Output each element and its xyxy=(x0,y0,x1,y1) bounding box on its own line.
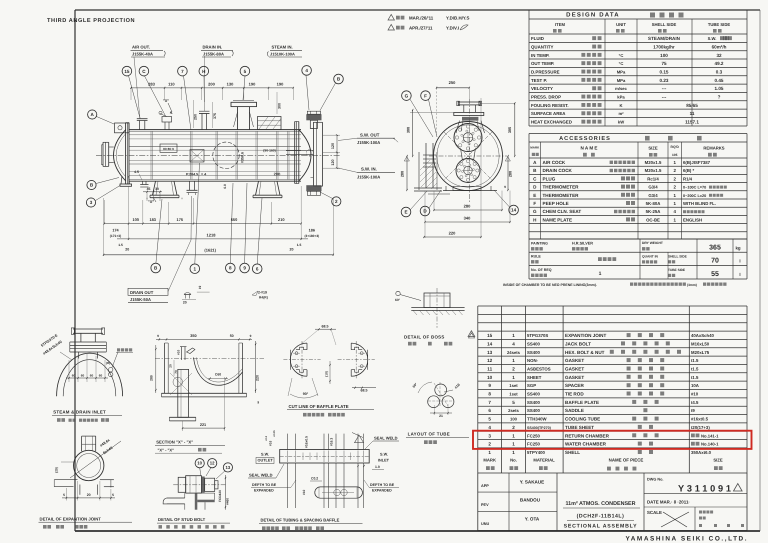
svg-text:GASKET: GASKET xyxy=(565,367,584,372)
svg-text:200: 200 xyxy=(208,81,215,86)
x-x walls xyxy=(164,343,166,393)
svg-text:PAINTING: PAINTING xyxy=(531,242,548,246)
cut line of baffle plate detail xyxy=(290,343,307,376)
svg-text:PEV: PEV xyxy=(481,503,489,507)
svg-text:WITH BLIND FL.: WITH BLIND FL. xyxy=(683,201,716,206)
svg-text:QUANTITY: QUANTITY xyxy=(531,45,554,50)
svg-text:49.2: 49.2 xyxy=(715,61,724,66)
svg-text:10: 10 xyxy=(487,375,493,380)
svg-text:9: 9 xyxy=(157,334,159,338)
svg-text:D: D xyxy=(423,209,427,214)
svg-text:(1621): (1621) xyxy=(204,248,216,253)
svg-text:0.23: 0.23 xyxy=(660,78,669,83)
svg-text:DATE MAR.· 8 ·2011·: DATE MAR.· 8 ·2011· xyxy=(647,500,690,505)
svg-text:TUBE SIDE: TUBE SIDE xyxy=(708,22,731,27)
svg-text:DRY WEIGHT: DRY WEIGHT xyxy=(642,241,663,245)
svg-text:THERMOMETER: THERMOMETER xyxy=(543,185,580,190)
svg-text:0~200C L=20: 0~200C L=20 xyxy=(683,194,706,198)
svg-text:250: 250 xyxy=(194,114,198,120)
svg-text:INSIDE OF CHAMBER TO BE NEO PR: INSIDE OF CHAMBER TO BE NEO PRENE LINING… xyxy=(503,283,597,287)
svg-text:OC-BE: OC-BE xyxy=(646,217,660,222)
svg-text:A: A xyxy=(533,160,537,165)
svg-text:J155K-100A: J155K-100A xyxy=(357,175,380,180)
stud bolt left pipe xyxy=(167,497,185,499)
svg-text:(29): (29) xyxy=(55,467,59,473)
svg-text:#10: #10 xyxy=(302,489,306,495)
right water chamber xyxy=(312,122,314,186)
top dimension line xyxy=(131,87,293,89)
svg-text:DWG No.: DWG No. xyxy=(647,478,663,482)
svg-text:S.W. IN.: S.W. IN. xyxy=(361,167,377,172)
center line xyxy=(96,154,340,156)
svg-text:R1/4: R1/4 xyxy=(683,176,693,181)
svg-text:C0.2: C0.2 xyxy=(311,477,318,481)
svg-text:SHELL SIDE: SHELL SIDE xyxy=(668,255,687,259)
sheet border frame xyxy=(75,9,760,11)
svg-text:FCD420: FCD420 xyxy=(218,490,222,502)
svg-text:1: 1 xyxy=(488,450,491,455)
svg-text:(10): (10) xyxy=(325,371,329,377)
svg-text:55: 55 xyxy=(711,271,719,278)
svg-text:14: 14 xyxy=(511,208,517,213)
svg-text:210: 210 xyxy=(278,217,285,222)
svg-text:DESIGN DATA: DESIGN DATA xyxy=(566,12,620,19)
svg-text:DEPTH TO BE: DEPTH TO BE xyxy=(370,483,395,487)
svg-text:Sch40: Sch40 xyxy=(102,446,113,456)
svg-text:60: 60 xyxy=(72,374,76,378)
svg-text:MPa: MPa xyxy=(617,78,626,83)
svg-text:280: 280 xyxy=(464,204,471,209)
svg-text:1: 1 xyxy=(599,271,602,277)
shell ID dashed circle xyxy=(213,142,239,168)
svg-text:IN TEMP.: IN TEMP. xyxy=(531,53,549,58)
inlet 60 dims xyxy=(66,377,108,379)
svg-text:No.140-1: No.140-1 xyxy=(701,442,719,447)
svg-text:1: 1 xyxy=(673,201,676,206)
svg-text:175: 175 xyxy=(177,217,184,222)
x-x bottom dim xyxy=(183,427,225,429)
svg-text:N A M E: N A M E xyxy=(580,146,597,151)
svg-text:EXPANDED: EXPANDED xyxy=(372,489,392,493)
section X-X detail xyxy=(156,338,252,340)
svg-text:90°: 90° xyxy=(303,392,309,396)
svg-text:C: C xyxy=(533,176,537,181)
svg-text:TUBE SHEET: TUBE SHEET xyxy=(565,425,594,430)
svg-text:RULE: RULE xyxy=(531,255,541,259)
title block xyxy=(477,473,479,531)
svg-text:2: 2 xyxy=(512,367,515,372)
svg-text:t20(17+3): t20(17+3) xyxy=(691,425,710,430)
x-x base plate xyxy=(162,392,247,394)
svg-text:H.R.SILVER: H.R.SILVER xyxy=(572,242,593,246)
svg-text:SECTIONAL ASSEMBLY: SECTIONAL ASSEMBLY xyxy=(564,524,638,530)
svg-text:VELOCITY: VELOCITY xyxy=(531,86,553,91)
right top SW nozzle xyxy=(310,120,317,128)
svg-text:2: 2 xyxy=(488,442,491,447)
lower tube nest circle xyxy=(456,159,480,183)
end view top nozzle xyxy=(458,102,480,105)
svg-text:19: 19 xyxy=(198,286,202,290)
svg-text:STEAM & DRAIN INLET: STEAM & DRAIN INLET xyxy=(53,410,106,415)
svg-text:(171+3): (171+3) xyxy=(110,234,121,238)
svg-text:186: 186 xyxy=(309,228,315,232)
svg-text:ENGLISH: ENGLISH xyxy=(683,217,702,222)
svg-text:280: 280 xyxy=(509,171,513,177)
internal baffle verticals xyxy=(150,131,152,179)
svg-text:#356.6: #356.6 xyxy=(241,152,245,163)
svg-text:RQ'D: RQ'D xyxy=(671,145,680,149)
svg-text:1: 1 xyxy=(673,193,676,198)
svg-text:APR./27/'11: APR./27/'11 xyxy=(409,26,433,31)
svg-text:P.204.5: P.204.5 xyxy=(186,173,198,177)
end view left pipe + expansion joint xyxy=(425,143,427,188)
svg-text:SURFACE AREA: SURFACE AREA xyxy=(531,111,566,116)
svg-text:#16: #16 xyxy=(454,383,461,390)
svg-text:THIRD ANGLE PROJECTION: THIRD ANGLE PROJECTION xyxy=(47,18,135,24)
end view base/saddle xyxy=(443,190,497,192)
svg-text:20: 20 xyxy=(183,300,187,304)
svg-text:200: 200 xyxy=(274,172,281,177)
small vertical dims above vessel xyxy=(192,100,194,128)
svg-text:1.5: 1.5 xyxy=(297,243,302,247)
svg-text:8: 8 xyxy=(229,266,232,271)
accessories table xyxy=(529,133,747,135)
svg-text:G3/4: G3/4 xyxy=(648,185,658,190)
svg-text:1: 1 xyxy=(673,217,676,222)
svg-text:#16.3: #16.3 xyxy=(330,438,334,446)
end view center lines xyxy=(429,155,507,157)
svg-text:DRAIN IN.: DRAIN IN. xyxy=(203,45,223,50)
svg-text:PRESS. DROP: PRESS. DROP xyxy=(531,95,561,100)
svg-text:STEAM IN.: STEAM IN. xyxy=(272,45,293,50)
svg-text:J1510K-100A: J1510K-100A xyxy=(270,52,295,57)
svg-text:1: 1 xyxy=(673,160,676,165)
left dished head xyxy=(114,130,126,181)
svg-text:221: 221 xyxy=(200,423,206,427)
svg-text:220: 220 xyxy=(449,231,456,236)
svg-text:305: 305 xyxy=(508,127,512,133)
svg-text:375: 375 xyxy=(213,113,217,119)
svg-text:SS400: SS400 xyxy=(527,341,541,346)
svg-text:CHEM CLN. SEAT: CHEM CLN. SEAT xyxy=(543,209,582,214)
svg-text:(3mm): (3mm) xyxy=(687,283,697,287)
svg-text:INLET: INLET xyxy=(378,459,390,463)
svg-text:SHEET: SHEET xyxy=(527,375,542,380)
svg-text:MATERIAL: MATERIAL xyxy=(533,458,555,463)
svg-text:SS400: SS400 xyxy=(527,400,541,405)
svg-text:H: H xyxy=(533,217,537,222)
svg-text:120: 120 xyxy=(331,159,335,165)
svg-text:+0.2: +0.2 xyxy=(265,435,268,441)
svg-text:S.W.: S.W. xyxy=(380,453,388,457)
svg-text:SHELL SIDE: SHELL SIDE xyxy=(652,22,677,27)
svg-text:Y311091: Y311091 xyxy=(678,484,731,494)
svg-text:350: 350 xyxy=(190,334,196,338)
svg-text:DETAIL OF TUBING & SPACING BAF: DETAIL OF TUBING & SPACING BAFFLE xyxy=(261,518,340,523)
svg-text:J155K-40A: J155K-40A xyxy=(132,52,153,57)
svg-text:280: 280 xyxy=(150,375,154,381)
svg-text:1: 1 xyxy=(194,266,197,271)
svg-text:E: E xyxy=(404,210,407,215)
svg-text:9: 9 xyxy=(243,266,246,271)
svg-text:MARK: MARK xyxy=(530,146,540,150)
svg-text:4: 4 xyxy=(305,68,308,73)
svg-text:No.141-1: No.141-1 xyxy=(701,433,719,438)
svg-text:15: 15 xyxy=(124,69,130,74)
svg-text:32: 32 xyxy=(716,53,722,58)
svg-text:?: ? xyxy=(718,95,721,100)
svg-text:C60: C60 xyxy=(215,373,221,377)
svg-text:7: 7 xyxy=(488,400,491,405)
svg-text:M16xL50: M16xL50 xyxy=(691,341,710,346)
svg-text:m²: m² xyxy=(618,111,624,116)
svg-text:kW: kW xyxy=(618,120,624,125)
svg-text:9: 9 xyxy=(250,334,252,338)
svg-text:340: 340 xyxy=(464,216,471,221)
svg-text:---: --- xyxy=(662,86,667,91)
svg-text:20: 20 xyxy=(169,364,173,368)
svg-text:STEAM/DRAIN: STEAM/DRAIN xyxy=(648,36,681,41)
svg-text:OUTLET: OUTLET xyxy=(258,459,274,463)
tube ends texture upper xyxy=(473,139,475,141)
svg-text:UNIT: UNIT xyxy=(616,22,626,27)
svg-text:LAYOUT OF TUBE: LAYOUT OF TUBE xyxy=(408,432,450,437)
x-x pipe stub xyxy=(181,347,183,360)
svg-text:5TPY400: 5TPY400 xyxy=(527,450,546,455)
svg-text:60°: 60° xyxy=(412,382,419,389)
svg-text:YAMASHINA SEIKI CO.,LTD.: YAMASHINA SEIKI CO.,LTD. xyxy=(626,536,747,543)
svg-text:l: l xyxy=(739,259,740,264)
svg-text:#460: #460 xyxy=(226,498,230,505)
svg-text:REMARKS: REMARKS xyxy=(703,146,724,151)
svg-text:365: 365 xyxy=(709,245,721,252)
svg-text:190: 190 xyxy=(249,81,256,86)
bottom dim line 2 xyxy=(117,238,308,240)
svg-text:TIE ROD: TIE ROD xyxy=(565,392,584,397)
svg-text:5K-25A: 5K-25A xyxy=(646,209,661,214)
svg-text:COOLING TUBE: COOLING TUBE xyxy=(565,417,600,422)
svg-text:100: 100 xyxy=(132,217,139,222)
svg-text:SHELL: SHELL xyxy=(565,450,580,455)
svg-text:J155K-50A: J155K-50A xyxy=(130,297,151,302)
svg-text:G: G xyxy=(533,209,537,214)
250 dim + 305 dim xyxy=(480,102,515,104)
svg-text:°C: °C xyxy=(619,61,624,66)
svg-text:280: 280 xyxy=(401,171,405,177)
svg-text:0.15: 0.15 xyxy=(660,70,669,75)
shell internal tube lines xyxy=(129,134,301,136)
left girth flange xyxy=(125,123,127,184)
svg-text:(R): (R) xyxy=(106,361,110,365)
right bottom SW nozzle xyxy=(306,185,321,191)
svg-text:"X": "X" xyxy=(163,99,169,103)
svg-text:M20x1.5: M20x1.5 xyxy=(645,168,662,173)
bottom dim line 1 xyxy=(104,223,301,225)
svg-text:Rc1/4: Rc1/4 xyxy=(647,176,659,181)
svg-text:G: G xyxy=(405,93,409,98)
svg-text:20: 20 xyxy=(125,248,129,252)
svg-text:9: 9 xyxy=(504,185,506,189)
svg-text:60: 60 xyxy=(90,374,94,378)
svg-text:SIZE: SIZE xyxy=(713,458,723,463)
svg-text:M20x1.5: M20x1.5 xyxy=(645,160,662,165)
end view balloons xyxy=(402,91,412,101)
svg-text:120: 120 xyxy=(331,143,335,149)
svg-text:15: 15 xyxy=(487,333,493,338)
svg-text:1218: 1218 xyxy=(207,233,217,238)
right girth flange xyxy=(294,122,296,184)
svg-text:21: 21 xyxy=(439,414,443,418)
x-x center line xyxy=(155,358,264,360)
left bottom skirt xyxy=(121,176,122,184)
svg-text:6(B)JISF7387: 6(B)JISF7387 xyxy=(683,160,711,165)
svg-text:TUBE SIDE: TUBE SIDE xyxy=(668,268,685,272)
svg-text:SGP: SGP xyxy=(527,383,536,388)
svg-text:J155K-80A: J155K-80A xyxy=(203,52,224,57)
stud bolt dims xyxy=(225,475,227,510)
svg-text:75: 75 xyxy=(661,61,667,66)
svg-text:13: 13 xyxy=(226,465,231,470)
svg-text:5: 5 xyxy=(488,417,491,422)
expansion joint diagonal leader xyxy=(70,441,121,478)
svg-text:C: C xyxy=(142,69,146,74)
svg-text:1: 1 xyxy=(512,442,515,447)
tube ends texture lower xyxy=(473,169,475,171)
bottom dim line 3 xyxy=(104,254,334,256)
svg-text:kPa: kPa xyxy=(617,95,625,100)
svg-text:PEEP HOLE: PEEP HOLE xyxy=(543,201,569,206)
svg-text:10A: 10A xyxy=(691,383,699,388)
svg-text:THERMOMETER: THERMOMETER xyxy=(543,193,580,198)
svg-text:1.5: 1.5 xyxy=(118,243,123,247)
svg-text:FC250: FC250 xyxy=(527,433,541,438)
balloons around side view xyxy=(122,66,132,76)
right dished head xyxy=(299,130,311,181)
svg-text:HEAT EXCHANGED: HEAT EXCHANGED xyxy=(531,120,572,125)
svg-text:2: 2 xyxy=(512,425,515,430)
svg-text:12: 12 xyxy=(487,358,493,363)
svg-text:SS400: SS400 xyxy=(527,408,541,413)
parts list table xyxy=(478,305,747,307)
expansion joint top stub xyxy=(81,436,83,451)
svg-text:220: 220 xyxy=(256,375,260,381)
svg-text:EXPANDED: EXPANDED xyxy=(254,489,274,493)
svg-text:300: 300 xyxy=(407,127,411,133)
svg-text:100: 100 xyxy=(510,417,518,422)
svg-text:4: 4 xyxy=(512,341,515,346)
svg-text:4.5: 4.5 xyxy=(134,170,139,174)
svg-text:t9: t9 xyxy=(691,408,695,413)
svg-text:2: 2 xyxy=(673,185,676,190)
right 120 dims xyxy=(336,135,338,168)
svg-text:t1.5: t1.5 xyxy=(691,358,699,363)
svg-text:5: 5 xyxy=(63,493,65,497)
svg-text:70: 70 xyxy=(711,258,719,265)
svg-text:100: 100 xyxy=(660,53,668,58)
svg-text:DETAIL OF EXPANTION JOINT: DETAIL OF EXPANTION JOINT xyxy=(40,516,102,521)
svg-text:B: B xyxy=(533,168,537,173)
svg-text:SCALE: SCALE xyxy=(647,510,662,515)
svg-text:8: 8 xyxy=(488,392,491,397)
svg-text:1157.1: 1157.1 xyxy=(685,120,699,125)
svg-text:0.45: 0.45 xyxy=(715,78,724,83)
expansion joint side pipes xyxy=(54,479,77,481)
cock C xyxy=(164,122,166,130)
svg-text:S.W. OUT: S.W. OUT xyxy=(360,133,380,138)
svg-text:SIZE: SIZE xyxy=(648,146,658,151)
svg-text:1.0: 1.0 xyxy=(375,465,380,469)
svg-text:300: 300 xyxy=(277,103,281,109)
red highlight box xyxy=(473,431,752,449)
plate box 80x80x9 xyxy=(160,144,177,152)
svg-text:AIR OUT.: AIR OUT. xyxy=(132,45,150,50)
svg-text:FLUID: FLUID xyxy=(531,36,544,41)
svg-text:#16x0.5: #16x0.5 xyxy=(305,436,309,448)
end view bracket hatch xyxy=(420,160,430,170)
svg-text:68.5: 68.5 xyxy=(361,389,368,393)
tube holes in band xyxy=(287,451,289,463)
svg-text:GASKET: GASKET xyxy=(565,375,584,380)
svg-text:60m³/h: 60m³/h xyxy=(712,45,727,50)
drain-in nozzle H xyxy=(201,114,203,130)
svg-text:5: 5 xyxy=(112,493,114,497)
svg-text:11m² ATMOS. CONDENSER: 11m² ATMOS. CONDENSER xyxy=(565,501,635,507)
svg-text:9: 9 xyxy=(488,383,491,388)
detail of boss xyxy=(411,307,464,309)
svg-text:1: 1 xyxy=(512,433,515,438)
svg-text:12: 12 xyxy=(210,461,215,466)
design data table xyxy=(529,9,747,11)
x-x support column xyxy=(178,369,189,417)
svg-text:4: 4 xyxy=(673,209,676,214)
svg-text:6: 6 xyxy=(256,266,259,271)
svg-text:#16xt0.5: #16xt0.5 xyxy=(691,417,709,422)
svg-text:50: 50 xyxy=(230,334,234,338)
svg-text:(3+180+3): (3+180+3) xyxy=(304,234,319,238)
svg-text:6: 6 xyxy=(488,408,491,413)
steam-in nozzle xyxy=(237,107,239,130)
inlet weld mark xyxy=(109,368,113,372)
end view diagonal center dashes xyxy=(444,132,492,180)
svg-text:D.PRESSURE: D.PRESSURE xyxy=(531,70,560,75)
svg-text:ITEM: ITEM xyxy=(555,22,566,27)
svg-text:2: 2 xyxy=(673,168,676,173)
svg-text:t4.5: t4.5 xyxy=(691,400,699,405)
svg-text:60: 60 xyxy=(99,374,103,378)
x-x trough arc xyxy=(194,358,243,386)
svg-text:68.5: 68.5 xyxy=(322,324,329,328)
svg-text:3: 3 xyxy=(488,433,491,438)
steam&drain inlet detail xyxy=(73,328,103,330)
svg-text:#10: #10 xyxy=(691,392,699,397)
svg-text:(DCH2F-11B14L): (DCH2F-11B14L) xyxy=(577,514,625,520)
gourd neck between tube circles xyxy=(461,150,463,160)
svg-text:3: 3 xyxy=(90,200,93,205)
svg-text:ASBESTOS: ASBESTOS xyxy=(527,367,551,372)
svg-text:---: --- xyxy=(662,95,667,100)
svg-text:5: 5 xyxy=(244,69,247,74)
svg-text:5TPG370S: 5TPG370S xyxy=(527,333,548,338)
svg-text:1set: 1set xyxy=(509,383,518,388)
svg-text:QUANT IN: QUANT IN xyxy=(642,255,659,259)
svg-text:Y. SAKAUE: Y. SAKAUE xyxy=(520,480,545,485)
shell body outline xyxy=(129,129,301,131)
svg-text:350Axt6.0: 350Axt6.0 xyxy=(691,450,712,455)
svg-text:1set: 1set xyxy=(509,392,518,397)
svg-text:1: 1 xyxy=(512,450,515,455)
svg-text:"X" - "X": "X" - "X" xyxy=(158,448,175,453)
detail of expansion joint xyxy=(74,450,104,480)
